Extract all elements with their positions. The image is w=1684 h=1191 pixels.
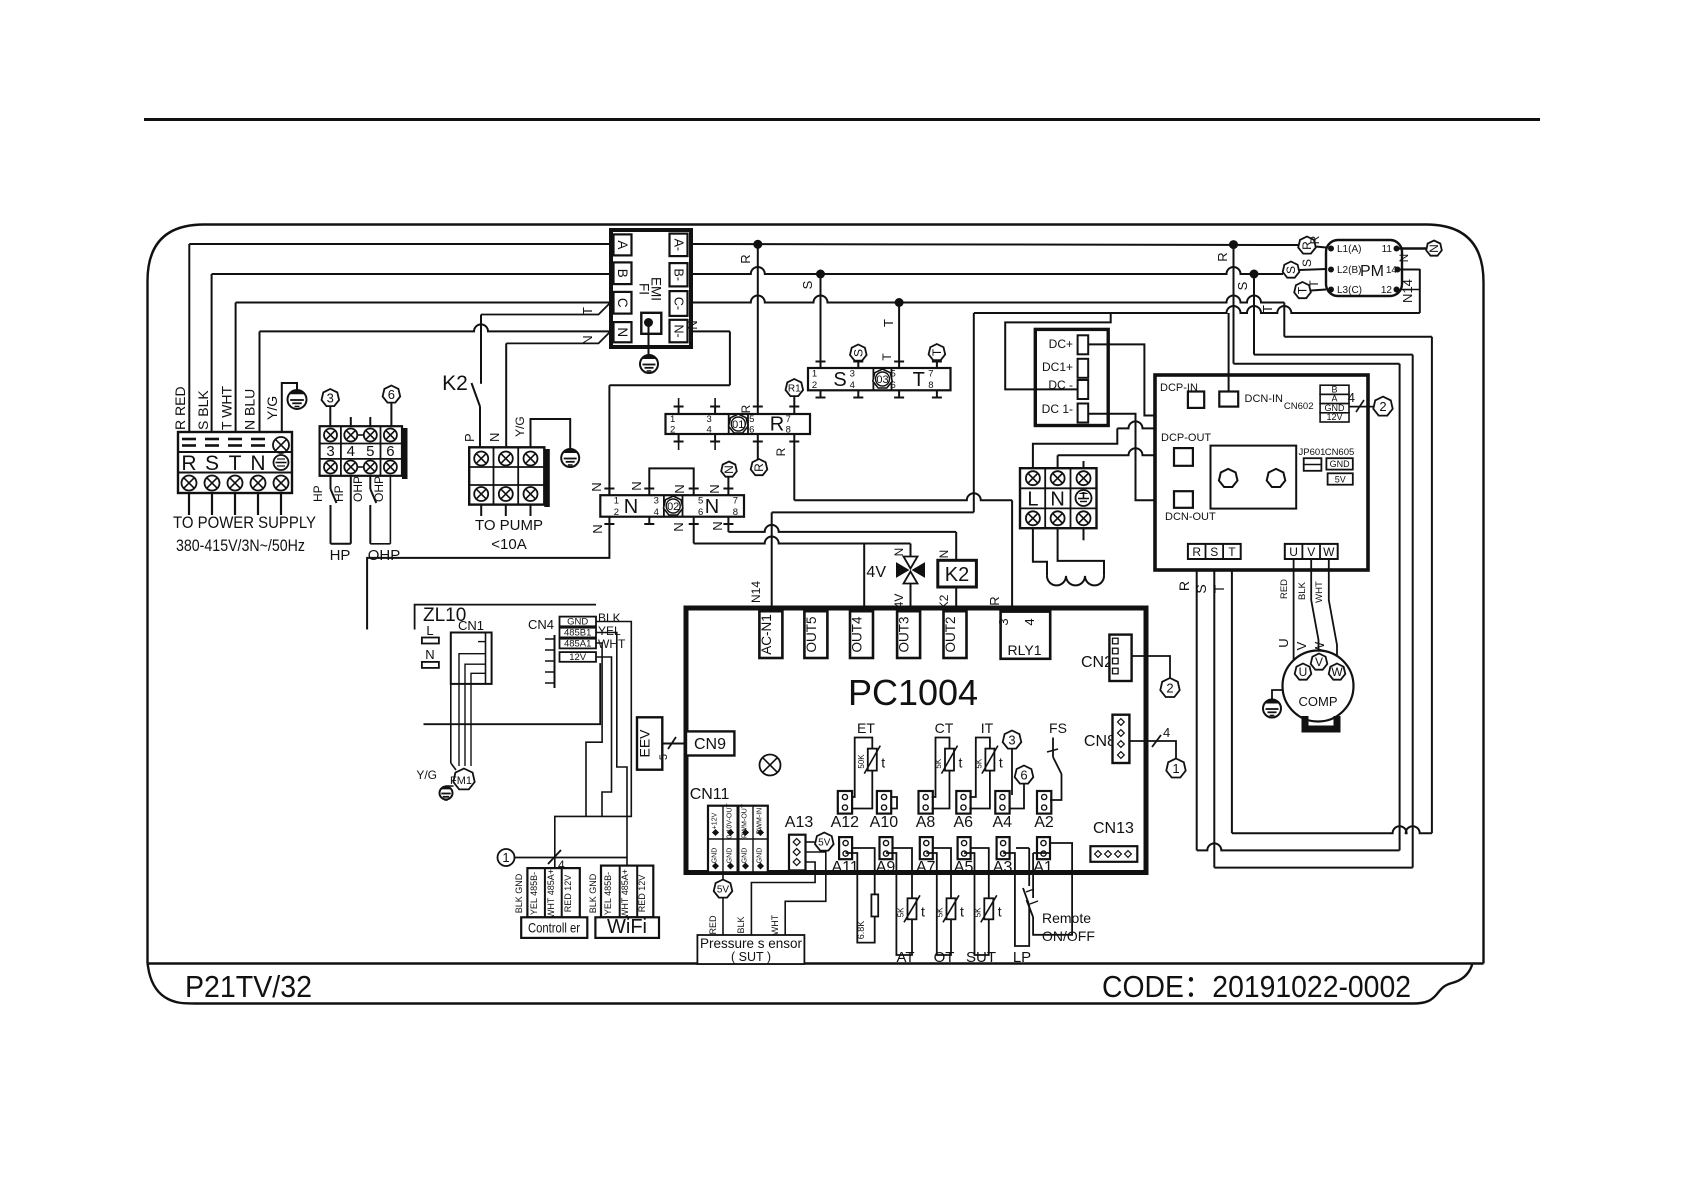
svg-text:W: W	[1323, 545, 1335, 559]
svg-text:S: S	[1210, 545, 1218, 559]
svg-text:CN9: CN9	[694, 736, 726, 753]
svg-text:t: t	[960, 903, 964, 919]
svg-text:HP: HP	[330, 547, 351, 564]
svg-text:T: T	[930, 348, 944, 356]
svg-text:K2: K2	[945, 564, 969, 586]
svg-text:B-: B-	[671, 269, 685, 282]
svg-text:U: U	[1276, 638, 1291, 647]
svg-text:5K: 5K	[973, 907, 982, 917]
svg-text:5: 5	[698, 496, 703, 507]
svg-text:L3(C): L3(C)	[1337, 285, 1362, 296]
svg-text:C: C	[615, 298, 630, 308]
svg-text:N: N	[590, 524, 605, 533]
svg-text:4: 4	[654, 507, 659, 518]
svg-text:N: N	[710, 521, 725, 530]
svg-text:A7: A7	[916, 859, 936, 876]
svg-text:7: 7	[733, 496, 738, 507]
svg-text:BLK: BLK	[598, 611, 621, 625]
svg-text:6.8K: 6.8K	[856, 921, 866, 940]
svg-text:t: t	[998, 903, 1002, 919]
svg-text:R: R	[1176, 581, 1192, 591]
svg-text:50K: 50K	[857, 754, 866, 769]
svg-text:RED 12V: RED 12V	[563, 875, 573, 913]
svg-text:OT: OT	[934, 949, 955, 966]
svg-text:N: N	[685, 320, 700, 329]
svg-text:JP601: JP601	[1299, 447, 1326, 458]
svg-text:3: 3	[996, 618, 1011, 625]
svg-text:L: L	[426, 623, 433, 638]
svg-text:L: L	[1027, 489, 1038, 511]
svg-text:5K: 5K	[897, 907, 906, 917]
svg-text:6: 6	[890, 380, 895, 391]
svg-text:W: W	[1331, 665, 1343, 679]
svg-text:12: 12	[1381, 285, 1393, 296]
svg-text:R: R	[774, 447, 788, 456]
svg-text:R: R	[1192, 545, 1201, 559]
svg-text:Controll er: Controll er	[528, 920, 580, 936]
svg-text:WHT 485A+: WHT 485A+	[620, 869, 630, 918]
svg-text:N: N	[624, 496, 638, 518]
svg-text:HP: HP	[332, 485, 346, 502]
svg-text:HP: HP	[311, 485, 325, 502]
svg-text:N: N	[937, 550, 951, 559]
svg-text:CN11: CN11	[690, 786, 730, 803]
svg-text:T: T	[580, 307, 595, 315]
svg-text:S: S	[1235, 281, 1250, 290]
svg-text:GND: GND	[1330, 459, 1351, 469]
svg-text:N: N	[425, 647, 434, 662]
svg-text:S: S	[833, 369, 846, 391]
svg-text:OHP: OHP	[368, 547, 401, 564]
svg-text:AT: AT	[896, 949, 914, 966]
svg-text:RED 12V: RED 12V	[637, 875, 647, 913]
svg-text:T: T	[229, 452, 242, 475]
svg-text:A6: A6	[954, 814, 974, 831]
svg-text:A-: A-	[671, 239, 685, 252]
svg-text:N: N	[250, 452, 265, 475]
svg-text:WHT: WHT	[770, 914, 780, 935]
svg-text:T: T	[913, 369, 925, 391]
svg-text:SUT: SUT	[966, 949, 996, 966]
svg-text:485B1: 485B1	[564, 627, 591, 638]
svg-text:12V: 12V	[569, 652, 587, 663]
svg-text:1: 1	[670, 414, 675, 425]
svg-text:N: N	[672, 484, 687, 493]
svg-text:FM1: FM1	[450, 775, 472, 787]
svg-text:WiFi: WiFi	[607, 916, 647, 938]
svg-text:BLK GND: BLK GND	[514, 873, 524, 913]
svg-text:R: R	[738, 254, 753, 263]
svg-text:CN8: CN8	[1084, 733, 1116, 750]
svg-text:4: 4	[1022, 618, 1037, 625]
svg-text:R: R	[770, 414, 784, 436]
svg-text:S: S	[852, 349, 866, 357]
svg-text:4V: 4V	[866, 564, 886, 581]
svg-text:4: 4	[1348, 390, 1355, 405]
svg-text:2: 2	[812, 380, 817, 391]
svg-text:T: T	[1228, 545, 1236, 559]
svg-text:2: 2	[670, 425, 675, 436]
svg-text:DC 1-: DC 1-	[1042, 402, 1073, 416]
svg-text:OUT4: OUT4	[850, 616, 865, 652]
svg-text:4: 4	[347, 443, 355, 460]
svg-text:03: 03	[876, 374, 888, 386]
svg-text:COMP: COMP	[1299, 694, 1338, 709]
svg-text:P21TV/32: P21TV/32	[185, 969, 312, 1004]
svg-text:N: N	[629, 481, 644, 490]
svg-text:3: 3	[327, 391, 334, 406]
svg-text:T: T	[1307, 280, 1321, 288]
svg-text:5V: 5V	[1335, 474, 1346, 484]
svg-text:8: 8	[928, 380, 933, 391]
svg-text:GND: GND	[567, 616, 588, 627]
svg-text:OUT5: OUT5	[804, 616, 819, 652]
svg-text:N14: N14	[749, 581, 763, 603]
svg-text:T: T	[1260, 305, 1275, 313]
svg-text:N-: N-	[671, 324, 685, 337]
svg-text:4: 4	[850, 380, 855, 391]
svg-text:C-: C-	[671, 297, 685, 310]
svg-text:PC1004: PC1004	[848, 672, 978, 713]
svg-text:B: B	[615, 269, 630, 278]
svg-text:5: 5	[366, 443, 374, 460]
svg-text:V: V	[1315, 655, 1323, 669]
svg-text:S: S	[1300, 259, 1314, 267]
svg-text:R: R	[752, 463, 766, 472]
svg-text:5: 5	[749, 414, 754, 425]
svg-text:TO PUMP: TO PUMP	[475, 517, 543, 534]
svg-text:12V: 12V	[1326, 412, 1342, 422]
svg-text:A12: A12	[831, 814, 860, 831]
svg-text:t: t	[881, 755, 885, 771]
svg-text:4: 4	[706, 425, 711, 436]
svg-text:t: t	[959, 755, 963, 771]
svg-text:U: U	[1299, 665, 1308, 679]
svg-text:N: N	[589, 482, 604, 491]
svg-text:N: N	[707, 484, 722, 493]
svg-text:A11: A11	[831, 859, 858, 876]
svg-text:K2: K2	[442, 372, 468, 395]
svg-text:GND: GND	[712, 848, 719, 864]
svg-text:A2: A2	[1034, 814, 1054, 831]
svg-text:A10: A10	[870, 814, 899, 831]
svg-text:N: N	[615, 327, 630, 337]
svg-text:LP: LP	[1013, 949, 1031, 966]
svg-text:5K: 5K	[974, 758, 983, 768]
svg-text:t: t	[921, 903, 925, 919]
svg-text:FI: FI	[637, 283, 652, 295]
svg-text:DC+: DC+	[1049, 337, 1073, 351]
svg-text:A13: A13	[785, 814, 814, 831]
svg-text:A4: A4	[993, 814, 1013, 831]
svg-text:BLK: BLK	[1297, 581, 1308, 600]
svg-text:8: 8	[733, 507, 738, 518]
svg-text:CN605: CN605	[1325, 447, 1355, 458]
svg-text:5K: 5K	[936, 907, 945, 917]
svg-text:S BLK: S BLK	[195, 390, 211, 430]
svg-text:FS: FS	[1049, 720, 1067, 736]
svg-text:OUT2: OUT2	[943, 616, 958, 652]
svg-text:N: N	[487, 433, 502, 442]
svg-text:T: T	[880, 353, 894, 361]
svg-text:YEL 485B-: YEL 485B-	[603, 872, 613, 915]
svg-text:5V: 5V	[818, 838, 831, 849]
svg-text:5V: 5V	[717, 885, 730, 896]
svg-text:T: T	[881, 319, 896, 327]
svg-text:RED: RED	[708, 915, 718, 935]
svg-text:3: 3	[1008, 733, 1015, 748]
svg-text:ON/OFF: ON/OFF	[1042, 928, 1095, 944]
svg-text:N: N	[705, 496, 719, 518]
svg-text:2: 2	[1166, 681, 1173, 696]
svg-text:N BLU: N BLU	[242, 389, 258, 430]
svg-text:01: 01	[732, 419, 744, 431]
svg-text:OHP: OHP	[372, 476, 386, 502]
svg-text:DCN-OUT: DCN-OUT	[1165, 511, 1216, 523]
svg-text:DC1+: DC1+	[1042, 360, 1073, 374]
svg-text:EEV: EEV	[637, 729, 653, 758]
svg-text:L1(A): L1(A)	[1337, 244, 1361, 255]
svg-text:ET: ET	[857, 720, 875, 736]
svg-text:BLK GND: BLK GND	[588, 873, 598, 913]
svg-text:02: 02	[667, 501, 679, 513]
svg-text:GND: GND	[742, 848, 749, 864]
svg-text:A5: A5	[954, 859, 974, 876]
svg-text:6: 6	[388, 387, 395, 402]
svg-text:GND: GND	[727, 848, 734, 864]
svg-text:Y/G: Y/G	[416, 768, 437, 782]
svg-text:A9: A9	[876, 859, 896, 876]
svg-text:Y/G: Y/G	[264, 396, 280, 420]
svg-text:<10A: <10A	[491, 536, 526, 553]
svg-text:OUT3: OUT3	[897, 616, 912, 652]
svg-text:R: R	[739, 404, 753, 413]
svg-text:2: 2	[614, 507, 619, 518]
svg-text:S: S	[1284, 266, 1298, 274]
svg-text:CN4: CN4	[528, 617, 554, 632]
svg-text:N: N	[1427, 244, 1441, 253]
svg-text:A1: A1	[1033, 859, 1053, 876]
svg-text:Y/G: Y/G	[513, 416, 527, 437]
svg-text:11: 11	[1382, 244, 1393, 255]
svg-text:OHP: OHP	[351, 476, 365, 502]
svg-text:A: A	[615, 240, 630, 249]
svg-text:YEL 485B-: YEL 485B-	[529, 872, 539, 915]
svg-text:N: N	[892, 548, 906, 557]
svg-text:IT: IT	[981, 720, 994, 736]
svg-text:3: 3	[850, 369, 855, 380]
svg-text:380-415V/3N~/50Hz: 380-415V/3N~/50Hz	[176, 536, 305, 555]
svg-text:1: 1	[1172, 761, 1179, 776]
svg-text:( SUT ): ( SUT )	[731, 950, 771, 964]
svg-text:3: 3	[706, 414, 711, 425]
svg-text:CT: CT	[935, 720, 954, 736]
svg-text:8: 8	[786, 425, 791, 436]
svg-text:N: N	[671, 522, 686, 531]
svg-text:DCN-IN: DCN-IN	[1245, 393, 1284, 405]
svg-text:t: t	[999, 755, 1003, 771]
svg-text:6: 6	[1020, 768, 1027, 783]
svg-text:485A1: 485A1	[564, 638, 591, 649]
svg-text:S: S	[800, 280, 815, 289]
svg-text:N: N	[1050, 489, 1064, 511]
svg-text:CN602: CN602	[1284, 401, 1314, 412]
svg-text:4: 4	[1163, 725, 1170, 740]
svg-text:5: 5	[890, 369, 895, 380]
svg-text:N: N	[722, 465, 736, 474]
svg-text:R1: R1	[788, 384, 801, 395]
svg-text:CN13: CN13	[1093, 820, 1134, 837]
svg-text:V: V	[1294, 641, 1309, 650]
svg-text:6: 6	[698, 507, 703, 518]
svg-text:1: 1	[812, 369, 817, 380]
svg-text:3: 3	[326, 443, 334, 460]
svg-text:N: N	[580, 335, 595, 344]
svg-text:6: 6	[749, 425, 754, 436]
svg-text:AC-N1: AC-N1	[759, 614, 774, 655]
svg-text:S: S	[205, 452, 219, 475]
svg-text:RED: RED	[1279, 579, 1290, 599]
svg-text:BLK: BLK	[736, 916, 746, 933]
svg-text:GND: GND	[757, 848, 764, 864]
svg-text:Remote: Remote	[1042, 910, 1091, 926]
svg-text:Pressure s ensor: Pressure s ensor	[700, 936, 803, 951]
svg-text:R RED: R RED	[172, 386, 188, 430]
svg-text:A8: A8	[916, 814, 936, 831]
svg-text:6: 6	[386, 443, 394, 460]
svg-text:TO POWER SUPPLY: TO POWER SUPPLY	[173, 513, 316, 532]
svg-text:R: R	[1308, 235, 1322, 244]
svg-text:T: T	[1211, 584, 1227, 593]
svg-text:T WHT: T WHT	[219, 385, 235, 430]
svg-text:L2(B): L2(B)	[1337, 265, 1361, 276]
svg-text:S: S	[1193, 584, 1209, 593]
svg-text:1: 1	[502, 850, 509, 865]
svg-text:PM: PM	[1360, 263, 1384, 280]
svg-text:5K: 5K	[934, 758, 943, 768]
svg-text:1: 1	[614, 496, 619, 507]
svg-text:WHT: WHT	[1314, 581, 1325, 603]
svg-text:3: 3	[654, 496, 659, 507]
svg-text:5: 5	[658, 754, 670, 760]
svg-text:P: P	[462, 433, 477, 442]
svg-text:U: U	[1289, 545, 1298, 559]
svg-text:WHT 485A+: WHT 485A+	[546, 869, 556, 918]
svg-text:A3: A3	[993, 859, 1013, 876]
svg-text:R: R	[181, 452, 196, 475]
svg-text:DCP-OUT: DCP-OUT	[1161, 432, 1211, 444]
svg-text:R: R	[987, 596, 1002, 605]
svg-text:7: 7	[786, 414, 791, 425]
svg-text:7: 7	[928, 369, 933, 380]
svg-text:CN1: CN1	[458, 618, 484, 633]
svg-text:N: N	[1397, 254, 1411, 263]
svg-text:CODE：20191022-0002: CODE：20191022-0002	[1102, 969, 1411, 1004]
svg-text:RLY1: RLY1	[1008, 642, 1042, 658]
svg-text:R: R	[1215, 252, 1230, 261]
svg-text:+12V: +12V	[712, 812, 719, 829]
svg-text:V: V	[1307, 545, 1315, 559]
svg-text:2: 2	[1379, 399, 1386, 414]
